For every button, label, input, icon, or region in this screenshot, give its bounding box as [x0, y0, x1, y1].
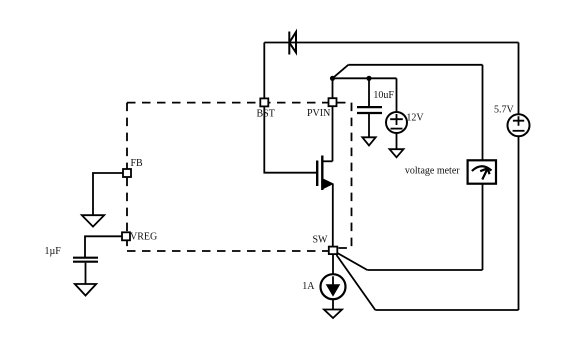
svg-text:1A: 1A: [302, 281, 315, 292]
IC boundary dashed top edge: [127, 102, 352, 104]
wire bottom rail: [375, 309, 518, 311]
voltage meter box: [468, 160, 496, 183]
wire BST down to gate: [264, 106, 316, 172]
wire source down to SW: [332, 184, 334, 247]
transistor Q1 source arrow: [323, 179, 333, 188]
ground below 10uF: [362, 137, 375, 145]
svg-text:PVIN: PVIN: [307, 108, 330, 119]
current source I1 arrow: [332, 276, 334, 286]
ground below 1uF: [75, 284, 96, 296]
wire right rail down to 5.7V: [518, 43, 520, 115]
pin SW square: [329, 247, 338, 255]
voltage source V1 12V circle: [386, 112, 407, 133]
wire 10uF top: [368, 78, 370, 106]
diode D1 cathode bar: [288, 32, 290, 55]
node junction dot 10uF tap: [366, 76, 371, 81]
pin BST square: [260, 98, 268, 106]
IC boundary dashed left edge: [126, 103, 128, 251]
wire 1A bottom: [332, 299, 334, 309]
diode D1 triangle: [289, 32, 296, 53]
svg-text:VREG: VREG: [130, 232, 157, 243]
IC boundary dashed right edge: [338, 103, 352, 248]
wire meter bottom horizontal: [367, 269, 482, 271]
wire FB left: [93, 173, 123, 215]
wire PVIN node horizontal: [333, 77, 397, 79]
wire 12V bottom: [396, 133, 398, 149]
wire upper rail horizontal: [348, 64, 482, 66]
svg-text:12V: 12V: [406, 113, 424, 124]
wire 5.7V bottom down: [518, 136, 520, 310]
wire meter top vertical: [482, 65, 484, 161]
svg-text:FB: FB: [131, 158, 144, 169]
pin PVIN square: [329, 98, 337, 106]
svg-text:voltage meter: voltage meter: [405, 166, 460, 177]
voltage meter needle: [482, 169, 487, 180]
svg-text:10uF: 10uF: [373, 90, 394, 101]
capacitor C1 1uF plates: [73, 258, 98, 262]
wire 1uF bottom: [85, 263, 87, 284]
voltage meter gauge arc: [472, 166, 492, 171]
node junction dot PVIN rail: [330, 76, 335, 81]
wire diagonal SW to meter rail: [337, 253, 368, 271]
wire diagonal SW to bottom rail: [337, 255, 376, 310]
voltage source V1 plus sign: [390, 114, 403, 125]
current source I1 arrow head: [327, 285, 340, 296]
pin FB square: [123, 169, 131, 177]
svg-text:SW: SW: [313, 234, 329, 245]
ground below 12V: [390, 149, 404, 157]
wire 12V top: [396, 78, 398, 112]
svg-text:5.7V: 5.7V: [494, 105, 515, 116]
wire PVIN node vertical up: [332, 78, 334, 98]
wire VREG left: [85, 236, 122, 257]
voltage source V2 5.7V circle: [508, 114, 530, 136]
current source I1 1A circle: [321, 274, 346, 299]
IC boundary dashed bottom edge: [127, 250, 329, 252]
ground below FB wire: [82, 215, 104, 226]
pin VREG square: [122, 232, 130, 240]
transistor Q1 drain lead: [322, 160, 332, 162]
wire meter bottom vertical: [482, 184, 484, 270]
capacitor C2 10uF plates: [357, 107, 382, 113]
wire diagonal upper rail to PVIN node: [333, 65, 349, 79]
voltage source V2 plus sign: [513, 116, 524, 126]
transistor Q1 channel bar: [321, 156, 323, 191]
voltage source V1 minus sign: [391, 128, 403, 130]
wire top rail: [264, 42, 518, 44]
ground below 1A: [324, 310, 342, 319]
wire SW down to current source: [332, 254, 334, 274]
voltage source V2 minus sign: [513, 130, 525, 132]
voltage meter needle arrow barbs: [480, 168, 489, 174]
wire PVIN down to drain: [332, 106, 334, 161]
wire 10uF bottom: [368, 114, 370, 137]
svg-text:BST: BST: [257, 109, 275, 120]
svg-text:1µF: 1µF: [45, 246, 62, 257]
transistor Q1 gate bar: [316, 161, 318, 187]
wire BST up: [263, 43, 265, 99]
